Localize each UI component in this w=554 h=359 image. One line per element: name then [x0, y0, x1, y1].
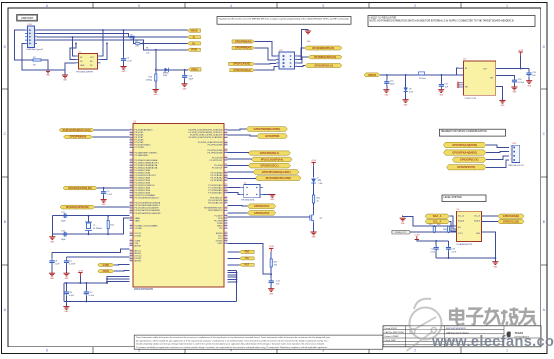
wire buzz to U1 [228, 129, 247, 130]
wire U3 NR pin to C18 [496, 76, 515, 79]
svg-text:GPIO/SPI(CLK): GPIO/SPI(CLK) [460, 158, 479, 162]
wire JP1 left 2 [254, 48, 276, 60]
esd IC U4 TPD2E001 [241, 182, 263, 201]
resistor R6 1.0k on PUR [146, 48, 149, 55]
svg-text:0.1uF: 0.1uF [127, 61, 133, 63]
svg-text:A: A [543, 308, 546, 312]
svg-text:69: 69 [130, 259, 132, 261]
watermark chinese text [450, 308, 536, 325]
regulator U3 LM1117-3.3 [457, 59, 496, 100]
svg-text:RF(GDO0)/GPIO(LED): RF(GDO0)/GPIO(LED) [68, 188, 92, 190]
U1 right pins and pin numbers [188, 128, 227, 245]
resistor R11 crystal [107, 216, 115, 235]
svg-text:1uF: 1uF [445, 86, 449, 88]
wire JP1 right 4 [298, 66, 306, 67]
svg-text:SDA_B: SDA_B [474, 220, 481, 223]
svg-text:5: 5 [35, 42, 36, 44]
wire U2 VCC to VBUS net [101, 30, 104, 56]
svg-text:B: B [543, 220, 545, 224]
wire data1 [228, 204, 248, 207]
svg-text:VSS2: VSS2 [217, 243, 223, 245]
svg-text:6: 6 [46, 349, 48, 353]
capacitor C19 1uF at U3 out [526, 69, 536, 81]
svg-text:R4: R4 [136, 41, 138, 43]
wire AVCC rail [64, 282, 108, 284]
wire header 4 [486, 160, 509, 167]
net label SPI group 3 [248, 163, 290, 168]
wire PUR from CN1 [37, 40, 188, 51]
svg-text:RST: RST [245, 265, 250, 267]
svg-text:26: 26 [225, 242, 227, 244]
svg-text:0.01uF: 0.01uF [518, 82, 525, 84]
svg-text:P5.1/A9/VREF-: P5.1/A9/VREF- [135, 154, 149, 157]
wire crystal XOUT [52, 218, 129, 235]
svg-text:VCC: VCC [90, 57, 95, 59]
svg-text:22: 22 [225, 151, 227, 153]
svg-text:USB PORT: USB PORT [21, 17, 34, 20]
wire U1 to Q1 gate [228, 216, 310, 218]
svg-text:GND: GND [46, 75, 51, 77]
svg-text:C4: C4 [69, 261, 72, 263]
net label D- [188, 36, 201, 39]
note box header for SPI I2C [439, 129, 505, 136]
wire VBUS rail to U3 [380, 74, 464, 76]
net label VBUS left [98, 270, 114, 273]
svg-text:3: 3 [277, 58, 278, 60]
svg-text:GPIO/SPI(A4)(MOSI): GPIO/SPI(A4)(MOSI) [452, 143, 477, 147]
wire U3 GND tab [496, 87, 503, 101]
svg-text:5: 5 [277, 62, 278, 64]
svg-text:LEVEL SHIFTER: LEVEL SHIFTER [444, 196, 463, 199]
net label header 3 [452, 157, 485, 162]
svg-text:AVSS2: AVSS2 [135, 245, 142, 248]
svg-text:3: 3 [322, 4, 324, 8]
resistor R13 33k [270, 259, 278, 275]
svg-text:RF(SOMI)/SPI(A5): RF(SOMI)/SPI(A5) [312, 46, 334, 50]
svg-text:VBUS: VBUS [368, 73, 376, 77]
capacitor C5 0.1uF on LED net [101, 188, 113, 200]
svg-text:1.3Meg: 1.3Meg [146, 80, 153, 82]
svg-text:R13: R13 [274, 262, 279, 264]
ground under C16 [383, 90, 389, 97]
wire JP1 left 4 [254, 67, 276, 71]
svg-text:R10: R10 [149, 77, 154, 79]
svg-text:GND: GND [122, 71, 127, 73]
net label RF GPIO clock [59, 129, 94, 132]
svg-text:D6: D6 [409, 89, 412, 91]
power +3.3V at U3 out [518, 50, 524, 69]
svg-text:Q1: Q1 [320, 218, 324, 220]
wire header 1 [486, 145, 509, 147]
svg-text:HEADER FOR SPI/I2C COMMUNICATI: HEADER FOR SPI/I2C COMMUNICATION [441, 130, 487, 133]
svg-text:CT1: CT1 [61, 212, 66, 214]
svg-text:B: B [4, 220, 6, 224]
svg-text:1k: 1k [317, 201, 319, 203]
svg-text:LED: LED [319, 183, 323, 185]
net label GPIO/UCA1 B [230, 69, 255, 72]
svg-text:GPIO/SCL(B): GPIO/SCL(B) [503, 219, 519, 223]
ground under C17 [438, 90, 444, 97]
svg-text:5: 5 [138, 4, 140, 8]
svg-text:58: 58 [225, 191, 227, 193]
wire Q1 source to ground [313, 222, 315, 232]
svg-text:P4.5/PM_NONE: P4.5/PM_NONE [208, 145, 224, 147]
ground under C5 [101, 200, 107, 207]
svg-text:VBUS: VBUS [103, 271, 110, 273]
power port VUSB_OUT [392, 230, 411, 234]
net label GPIO/UCA0 A [229, 62, 255, 65]
svg-text:GND: GND [65, 278, 70, 280]
wire SW net to U1 [95, 206, 130, 208]
svg-text:VBAT: VBAT [135, 219, 141, 222]
svg-text:2: 2 [35, 32, 36, 34]
svg-text:C: C [4, 132, 7, 136]
svg-text:GPIO/PWM(A4): GPIO/PWM(A4) [235, 47, 252, 50]
microcontroller U1 MSP430F5529 [133, 120, 224, 291]
svg-text:TDO: TDO [244, 252, 249, 254]
svg-text:C17: C17 [445, 84, 450, 86]
ground under U3 [499, 100, 505, 107]
svg-text:34: 34 [130, 244, 132, 246]
svg-text:VCC1: VCC1 [458, 233, 463, 235]
wire LED net to U1 [97, 187, 130, 189]
svg-text:GND: GND [494, 266, 499, 268]
wire U3 IN pins [457, 68, 459, 75]
svg-text:4: 4 [510, 158, 511, 160]
svg-text:R11: R11 [110, 225, 114, 227]
svg-text:73: 73 [225, 209, 227, 211]
svg-text:16: 16 [130, 196, 132, 198]
svg-text:1: 1 [277, 55, 278, 57]
svg-text:4148: 4148 [163, 75, 167, 77]
wire VCORE to U1 [52, 249, 130, 252]
svg-text:should completely validate and: should completely validate and test your… [136, 343, 325, 346]
svg-text:SCL_A: SCL_A [458, 215, 464, 218]
wire JP1 left 1 [254, 42, 276, 57]
capacitor C16 10uF [384, 75, 395, 90]
svg-text:C16: C16 [452, 249, 455, 251]
svg-text:Y1: Y1 [93, 225, 96, 227]
capacitor C10B 0.1uF [84, 283, 95, 301]
ground under C13 [268, 289, 274, 296]
net label GPIO PWM BUZZ [246, 127, 287, 132]
svg-text:GND: GND [80, 65, 85, 67]
svg-text:TLV1117-33: TLV1117-33 [464, 98, 476, 100]
wire scl_b [482, 221, 498, 223]
svg-text:D: D [543, 45, 546, 49]
svg-text:A: A [4, 308, 7, 312]
net label SCL_A [425, 219, 449, 223]
net label SPI SOMI [305, 46, 342, 50]
svg-text:4: 4 [230, 4, 232, 8]
svg-text:R6: R6 [146, 48, 148, 50]
svg-text:2.2uF: 2.2uF [55, 263, 61, 265]
svg-text:0.1uF: 0.1uF [89, 295, 95, 297]
svg-text:2: 2 [510, 150, 511, 152]
svg-text:2: 2 [414, 349, 416, 353]
svg-text:3: 3 [510, 154, 511, 156]
capacitor C16b 0.1uF shifter [446, 241, 457, 258]
net label GPIO DATA1 [248, 204, 276, 209]
svg-text:GND: GND [63, 80, 68, 82]
svg-text:VUSB_OUT: VUSB_OUT [395, 232, 407, 234]
svg-text:SDA_A: SDA_A [458, 220, 465, 223]
svg-text:GND: GND [50, 241, 55, 243]
net label VBUS [188, 29, 201, 33]
svg-text:13: 13 [130, 234, 132, 236]
capacitor C10 33pF [182, 70, 194, 84]
svg-text:TI assumes no liability for ap: TI assumes no liability for applications… [136, 346, 328, 349]
svg-text:R16: R16 [437, 224, 440, 226]
svg-text:C18: C18 [518, 79, 523, 81]
svg-text:TP Vbus: TP Vbus [419, 78, 426, 80]
svg-text:DVSS1: DVSS1 [135, 235, 143, 237]
svg-text:SCL_B: SCL_B [474, 216, 480, 218]
ground under D6 [402, 100, 408, 107]
resistor R12 1k [313, 195, 322, 213]
svg-text:P4.3/PM_UCA1TXD/PM_UCA1SIMO: P4.3/PM_UCA1TXD/PM_UCA1SIMO [188, 136, 222, 139]
svg-text:P4.7/PM_NONE: P4.7/PM_NONE [208, 152, 224, 154]
wire data2 [228, 212, 248, 214]
svg-text:TEST/SBWTCK: TEST/SBWTCK [208, 210, 223, 212]
wire tdo [228, 251, 240, 253]
net label VREG [188, 67, 201, 71]
wire SPI group 1 [228, 152, 249, 154]
watermark url text [431, 334, 554, 350]
svg-text:GND: GND [404, 104, 409, 106]
wire U2 D2 to D+ net [70, 43, 76, 59]
svg-text:27R: 27R [136, 46, 140, 48]
svg-text:GPIO/PWM(BUZZER): GPIO/PWM(BUZZER) [254, 127, 281, 131]
ground under C3 [120, 67, 126, 74]
svg-text:GPIO/SDA(B): GPIO/SDA(B) [503, 214, 519, 218]
svg-text:10uF: 10uF [390, 83, 395, 85]
svg-text:7: 7 [277, 65, 278, 67]
svg-text:GND: GND [439, 94, 444, 96]
watermark logo circle [407, 299, 442, 351]
net label GPIO SW top [60, 205, 95, 209]
svg-text:TPD2E001DRL: TPD2E001DRL [241, 200, 256, 202]
wire crystal XIN [52, 215, 129, 217]
wire JP1 left 3 [254, 62, 276, 65]
wire CN1 pin5 down [22, 43, 65, 74]
wire U2 right D2 pin [101, 42, 108, 59]
svg-text:C5: C5 [107, 191, 110, 193]
svg-text:GND: GND [513, 92, 518, 94]
test point TP1 Vbus [419, 72, 426, 80]
wire SPI group 5 [228, 177, 256, 179]
svg-text:CAD No: MSP-TS430: CAD No: MSP-TS430 [385, 331, 405, 334]
U1 left pins and pin numbers [130, 128, 161, 262]
wire vusb_out to U5 [411, 231, 457, 233]
svg-text:SDA_A: SDA_A [433, 214, 442, 218]
resistor R5 27R inline D- [130, 35, 135, 42]
wire VBUS to U1 [114, 269, 130, 272]
capacitor C110 0.1uF [64, 283, 75, 301]
svg-text:GPIO/PWM: GPIO/PWM [265, 134, 280, 138]
wire SPI group 2 [228, 158, 252, 160]
wire sda_a [449, 216, 456, 229]
svg-text:1nF: 1nF [276, 284, 280, 286]
zener diode D6 5.6V [404, 75, 414, 100]
led D4 [311, 177, 323, 195]
svg-text:GPIO/SPI(A4)(MISO): GPIO/SPI(A4)(MISO) [452, 150, 477, 154]
net label header 4 [447, 165, 486, 170]
svg-text:C3: C3 [127, 58, 130, 60]
crystal Y1 32768Hz [85, 216, 102, 235]
svg-text:1: 1 [506, 4, 508, 8]
svg-text:GPIO/SPI(STE): GPIO/SPI(STE) [457, 165, 475, 169]
ground under CN1 pin5 [62, 75, 68, 82]
svg-text:GPIO/SPI(SEL1): GPIO/SPI(SEL1) [260, 151, 280, 155]
svg-text:51: 51 [130, 211, 132, 213]
svg-text:the specifications, will be su: the specifications, will be suitable for… [136, 339, 327, 342]
svg-text:GPIO/SPI(SIMO)(A4/RF): GPIO/SPI(SIMO)(A4/RF) [262, 170, 291, 174]
svg-text:C16: C16 [390, 81, 395, 83]
wire U1 VSS bundle right [228, 270, 238, 301]
wire crystal left [51, 216, 53, 237]
svg-text:GND: GND [312, 237, 317, 239]
net label DN [240, 257, 255, 260]
svg-text:GND: GND [154, 94, 159, 96]
svg-text:Check: BSR: Check: BSR [385, 340, 396, 342]
svg-text:C13: C13 [276, 281, 281, 283]
wire D- from CN1 [37, 33, 188, 38]
svg-text:P7.7/CB11: P7.7/CB11 [135, 147, 146, 149]
svg-text:D2: D2 [80, 61, 82, 63]
capacitor C13 1nF reset [269, 274, 281, 288]
ground above JP1 [298, 29, 312, 56]
svg-text:RF(GDO2)/GPIO(SW): RF(GDO2)/GPIO(SW) [66, 207, 89, 209]
wire SPI group 3 [228, 165, 249, 167]
svg-text:C11: C11 [69, 292, 73, 294]
svg-text:P5.5/XOUT: P5.5/XOUT [212, 167, 223, 169]
wire U2 D1 to D- net [73, 37, 76, 56]
svg-text:D-: D- [193, 36, 196, 39]
svg-text:GND: GND [527, 85, 532, 87]
svg-text:RF(SOMI)/SPI(A4/MI): RF(SOMI)/SPI(A4/MI) [266, 176, 291, 180]
svg-text:GND: GND [401, 223, 406, 225]
note box regulator [368, 16, 535, 27]
svg-text:4: 4 [35, 38, 36, 40]
svg-text:VUSB: VUSB [103, 265, 110, 267]
svg-text:GND: GND [307, 41, 312, 43]
svg-text:C: C [543, 132, 546, 136]
svg-text:R15: R15 [429, 224, 432, 226]
svg-text:GND: GND [269, 293, 274, 295]
svg-text:VCORE: VCORE [135, 228, 143, 230]
ground at U4 [269, 195, 275, 202]
level shifter U5 PCA9306 [457, 209, 482, 246]
svg-text:P6.3/CB3/A3: P6.3/CB3/A3 [211, 179, 224, 182]
svg-text:C12: C12 [89, 292, 94, 294]
svg-text:0.1uF: 0.1uF [452, 251, 458, 253]
svg-text:34: 34 [225, 166, 227, 168]
ground under C8 [49, 273, 55, 280]
wire sda_b [482, 215, 498, 217]
wire tdi [228, 257, 240, 259]
capacitor CT4 18pF [61, 231, 68, 241]
svg-text:SCL_A: SCL_A [433, 219, 442, 223]
wire U3 OUT to +3.3V rail [496, 68, 529, 70]
svg-text:RF(RX)/GPIO(DK/CLOCK): RF(RX)/GPIO(DK/CLOCK) [63, 130, 91, 132]
svg-text:GPIO/DATA1: GPIO/DATA1 [254, 204, 270, 208]
svg-text:C10: C10 [189, 76, 194, 78]
resistor R16 200k [443, 226, 450, 232]
ground under C18 [511, 87, 517, 94]
resistor R4 27R inline D+ [135, 41, 140, 48]
wire U4 to ground [263, 194, 272, 196]
svg-text:LM1117-3.3 REGULATOR: LM1117-3.3 REGULATOR [370, 16, 397, 19]
svg-text:U3: U3 [463, 59, 467, 61]
wire U1 to U4 pin2 [228, 193, 241, 195]
wire D+ from CN1 [37, 37, 188, 45]
svg-text:D: D [4, 45, 7, 49]
wire U2 GND pin [65, 63, 76, 70]
capacitor C4 0.47uF [64, 257, 76, 273]
net label SDA_A [425, 214, 449, 218]
jumper header JP1 [276, 50, 298, 69]
svg-text:D2: D2 [90, 65, 92, 67]
svg-text:79: 79 [130, 227, 132, 229]
svg-text:46: 46 [225, 179, 227, 181]
svg-text:1: 1 [35, 28, 36, 30]
svg-text:GND: GND [476, 233, 481, 235]
net label GPIO SDA B [498, 214, 524, 218]
svg-text:33pF: 33pF [189, 79, 194, 81]
svg-text:C15: C15 [431, 249, 434, 251]
svg-text:P3.4/UCA0RXD/UCA0SOMI: P3.4/UCA0RXD/UCA0SOMI [135, 212, 161, 215]
Texas Instruments logo [507, 331, 530, 338]
ground under C19 [526, 81, 532, 88]
svg-text:Texas Instruments and/or its l: Texas Instruments and/or its licensors d… [136, 336, 331, 339]
svg-text:GPIO/PWM(A6): GPIO/PWM(A6) [70, 136, 87, 139]
svg-text:VREG: VREG [191, 67, 198, 71]
svg-text:www.elecfans.com: www.elecfans.com [431, 334, 554, 350]
svg-text:GND: GND [385, 94, 390, 96]
svg-text:C19: C19 [532, 72, 537, 74]
ground under Q1 [311, 232, 317, 239]
diode D5 MMSD4148 on VREG wire [156, 50, 170, 77]
svg-text:AVSS3: AVSS3 [135, 260, 142, 263]
svg-text:2: 2 [414, 4, 416, 8]
wire pwm2 to U1 [228, 134, 258, 137]
svg-text:GND: GND [102, 204, 107, 206]
svg-text:50: 50 [130, 146, 132, 148]
net label GPIO DATA2 [248, 211, 276, 216]
wire VBUS from CN1 [37, 29, 188, 31]
svg-text:R12: R12 [317, 198, 322, 200]
wire AVSS bottom rail [64, 283, 236, 302]
net label SPI group 4 [253, 170, 299, 175]
svg-text:0.1uF: 0.1uF [431, 251, 437, 253]
svg-text:GPIO/PWM(A5): GPIO/PWM(A5) [235, 40, 252, 43]
wire CN1 shield to ground [15, 30, 49, 62]
svg-text:RF(SCLK)/SPI(A4): RF(SCLK)/SPI(A4) [261, 157, 283, 161]
net label VUSB left [98, 263, 114, 266]
svg-text:GND: GND [65, 311, 70, 313]
wire U1 to U4 pin1 [228, 187, 241, 189]
wire JP1 right 3 [298, 57, 309, 63]
svg-text:200k: 200k [443, 229, 447, 231]
ground level shifter left [400, 216, 457, 227]
ground under C4 [63, 273, 69, 280]
wire rst [228, 264, 240, 266]
ground under R10 [153, 90, 159, 97]
svg-text:GPIO/I2C(SCL): GPIO/I2C(SCL) [260, 164, 278, 168]
net label GPIO PWM left [64, 135, 93, 138]
capacitor C3 0.1uF at VBUS [121, 30, 133, 66]
